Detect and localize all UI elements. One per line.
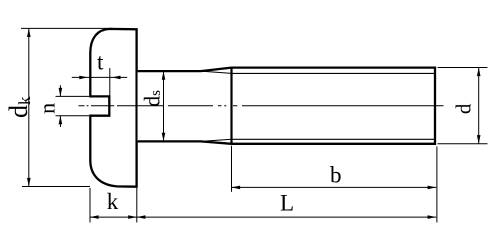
dimension n : lower arrow outside pointing up xyxy=(59,116,63,127)
dimension k and L : dimension line xyxy=(90,215,436,219)
dimension L : extension line right (below screw tip) xyxy=(436,147,438,223)
dimension b : label xyxy=(330,162,342,187)
svg-text:k: k xyxy=(107,189,119,214)
svg-text:d: d xyxy=(451,103,475,114)
shank and thread outer outline xyxy=(138,68,435,144)
thread runout diagonal (top) xyxy=(201,71,232,73)
dimension d : extension line top xyxy=(438,67,488,69)
svg-text:n: n xyxy=(35,103,60,114)
svg-text:t: t xyxy=(97,49,104,74)
dimension ds : label xyxy=(140,90,165,107)
dimension n : extension line bottom xyxy=(56,115,90,117)
dimension d : label xyxy=(451,103,475,114)
dimension k : extension line left xyxy=(89,188,91,223)
thread minor diameter line (top) xyxy=(232,72,435,74)
screw head outline (pan head with slot notch) xyxy=(90,29,136,187)
centerline (screw axis, dash-dot) xyxy=(79,105,444,107)
dimension b : dimension line with arrows xyxy=(232,186,437,190)
dimension dk : extension line bottom xyxy=(22,186,90,188)
dimension n : upper arrow outside pointing down xyxy=(59,85,63,96)
dimension ds : dimension line with arrows xyxy=(162,71,166,141)
thread runout diagonal (bottom) xyxy=(201,139,232,141)
svg-text:L: L xyxy=(280,190,294,215)
thread start vertical line xyxy=(230,68,232,144)
dimension d : dimension line with arrows xyxy=(477,68,481,144)
dimension t : dimension line with outside arrows xyxy=(72,76,127,80)
dimension n : label xyxy=(35,103,60,114)
dimension dk : dimension line with arrows xyxy=(27,28,31,186)
dimension dk : extension line top xyxy=(21,27,112,29)
dimension L : label xyxy=(280,190,294,215)
dimension t : label xyxy=(97,49,104,74)
thread minor diameter line (bottom) xyxy=(232,138,435,140)
dimension d : extension line bottom xyxy=(438,143,488,145)
dimension k and L : shared extension line at head face xyxy=(136,188,138,223)
dimension k : label xyxy=(107,189,119,214)
dimension t : extension line vertical xyxy=(109,68,111,96)
dimension b : extension line left (below thread start) xyxy=(231,146,233,192)
dimension dk : label xyxy=(4,96,34,118)
dimension n : extension line top xyxy=(56,95,90,97)
svg-text:b: b xyxy=(330,162,342,187)
